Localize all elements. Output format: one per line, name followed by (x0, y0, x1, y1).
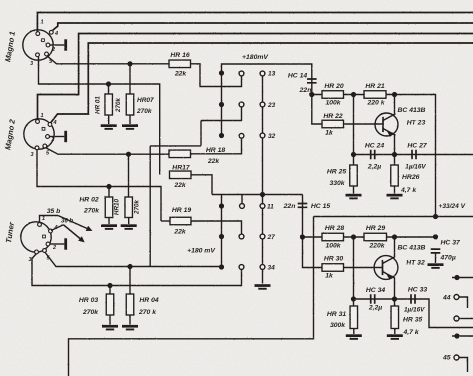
svg-text:470µ: 470µ (440, 255, 456, 262)
svg-text:HC 27: HC 27 (407, 143, 427, 150)
svg-text:32: 32 (268, 133, 276, 140)
svg-text:27: 27 (267, 234, 276, 241)
svg-text:HR 03: HR 03 (79, 297, 98, 304)
svg-text:HR 35: HR 35 (403, 317, 422, 324)
svg-text:270k: 270k (82, 309, 99, 316)
svg-text:45: 45 (442, 355, 451, 362)
svg-text:1µ/16V: 1µ/16V (404, 307, 425, 314)
svg-text:36 b: 36 b (61, 219, 73, 225)
svg-text:220k: 220k (368, 243, 385, 250)
svg-text:3: 3 (30, 61, 33, 67)
svg-text:2,2µ: 2,2µ (367, 164, 381, 171)
svg-text:3: 3 (30, 152, 33, 158)
svg-text:HC 14: HC 14 (288, 73, 307, 80)
svg-text:270k: 270k (136, 108, 152, 115)
svg-text:34: 34 (268, 265, 276, 272)
svg-text:HR 28: HR 28 (325, 225, 344, 232)
svg-text:HR 31: HR 31 (327, 311, 346, 318)
svg-text:1µ/16V: 1µ/16V (405, 164, 426, 171)
svg-text:1: 1 (40, 20, 43, 26)
svg-text:4: 4 (54, 31, 58, 37)
svg-text:HR 25: HR 25 (327, 169, 346, 176)
svg-text:HR26: HR26 (402, 174, 420, 181)
svg-text:+180mV: +180mV (242, 54, 269, 61)
svg-text:HR 04: HR 04 (139, 297, 158, 304)
svg-text:270 k: 270 k (138, 309, 157, 316)
svg-text:HR 18: HR 18 (206, 147, 225, 154)
svg-text:2: 2 (51, 47, 55, 53)
svg-text:22n: 22n (299, 87, 312, 94)
svg-text:HR 21: HR 21 (365, 83, 384, 90)
svg-text:HR 16: HR 16 (170, 52, 189, 59)
svg-text:+180 mV: +180 mV (187, 248, 216, 255)
svg-text:220 k: 220 k (366, 100, 385, 107)
svg-text:1: 1 (40, 113, 43, 119)
svg-text:HR 30: HR 30 (324, 256, 343, 263)
svg-text:22k: 22k (173, 229, 187, 236)
svg-text:HR 01: HR 01 (95, 96, 102, 114)
svg-text:HC 37: HC 37 (441, 240, 461, 247)
svg-text:HR 29: HR 29 (366, 225, 385, 232)
svg-text:HC 24: HC 24 (365, 143, 384, 150)
svg-text:22k: 22k (207, 158, 221, 165)
svg-text:HR07: HR07 (137, 97, 154, 104)
svg-text:3: 3 (28, 257, 31, 263)
svg-text:+33/24 V: +33/24 V (439, 203, 466, 210)
svg-text:22n: 22n (283, 203, 296, 210)
svg-text:23: 23 (267, 102, 276, 109)
svg-text:1k: 1k (325, 130, 334, 137)
svg-text:22k: 22k (174, 71, 188, 78)
svg-text:300k: 300k (330, 322, 346, 329)
svg-text:BC 413B: BC 413B (398, 245, 426, 252)
svg-text:HT 23: HT 23 (407, 120, 426, 127)
svg-text:HT 32: HT 32 (406, 260, 425, 267)
svg-text:HR10: HR10 (114, 198, 121, 215)
svg-text:1: 1 (42, 216, 45, 222)
svg-text:2: 2 (50, 137, 54, 143)
svg-text:HC 15: HC 15 (311, 203, 330, 210)
svg-text:100k: 100k (325, 100, 341, 107)
svg-text:4,7 k: 4,7 k (400, 187, 417, 194)
svg-text:330k: 330k (329, 180, 345, 187)
svg-text:1k: 1k (325, 273, 334, 280)
svg-text:2,2µ: 2,2µ (368, 305, 382, 312)
svg-text:4: 4 (52, 120, 56, 126)
svg-text:4,7 k: 4,7 k (403, 329, 420, 336)
svg-text:11: 11 (267, 204, 274, 211)
svg-text:HR 02: HR 02 (79, 197, 98, 204)
svg-text:HC 34: HC 34 (366, 287, 385, 294)
svg-text:270k: 270k (83, 208, 100, 215)
svg-text:HR17: HR17 (172, 165, 191, 172)
svg-text:HR 20: HR 20 (324, 83, 343, 90)
svg-text:HR 22: HR 22 (323, 113, 342, 120)
svg-text:HR 19: HR 19 (172, 207, 191, 214)
svg-text:270k: 270k (134, 200, 141, 216)
svg-text:BC 413B: BC 413B (398, 107, 426, 114)
svg-text:270k: 270k (115, 98, 122, 114)
svg-text:2: 2 (52, 245, 56, 251)
svg-text:22k: 22k (173, 182, 187, 189)
svg-text:100k: 100k (325, 243, 341, 250)
svg-text:35 b: 35 b (47, 208, 61, 215)
svg-text:13: 13 (268, 71, 276, 78)
svg-text:HC 33: HC 33 (408, 287, 427, 294)
svg-text:44: 44 (442, 295, 451, 302)
